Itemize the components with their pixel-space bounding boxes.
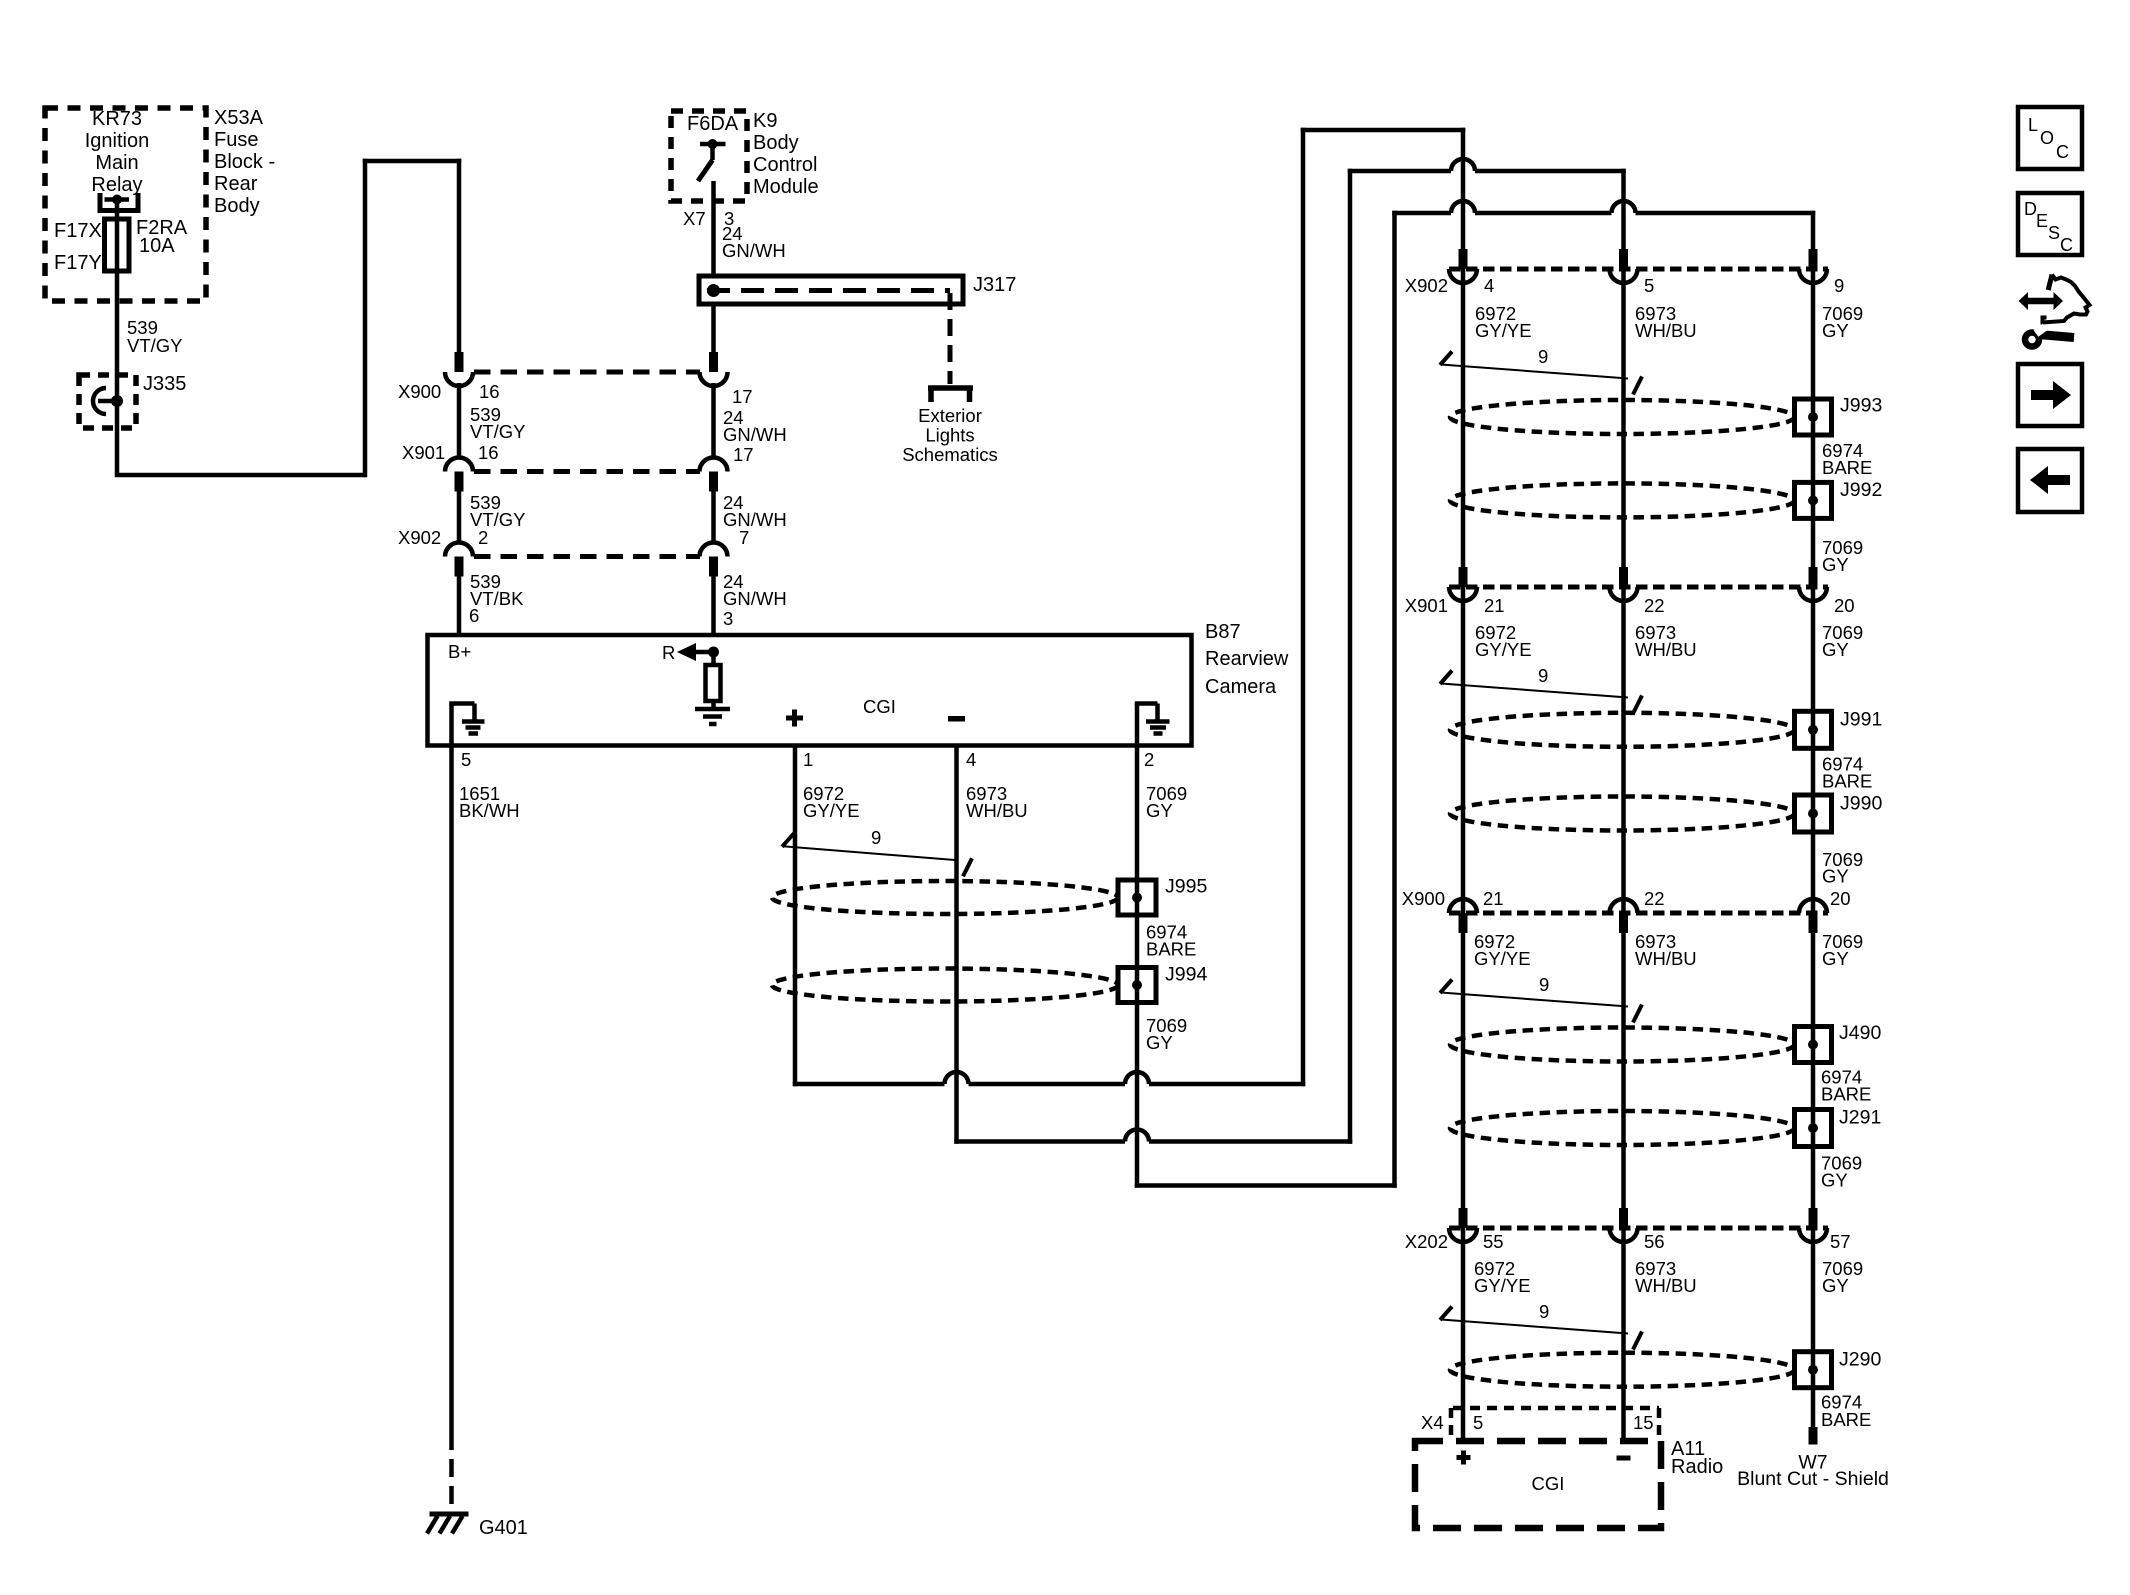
svg-text:GN/WH: GN/WH — [723, 509, 787, 530]
svg-text:GY: GY — [1146, 1032, 1173, 1053]
svg-text:B+: B+ — [448, 641, 471, 662]
svg-text:20: 20 — [1834, 595, 1855, 616]
label pin 2 — [1144, 749, 1154, 770]
label K9 Body Control Module — [753, 110, 819, 198]
label 7069 GY camera — [1146, 783, 1187, 821]
fuse block X53A (dashed box) — [45, 108, 206, 301]
radio A11 dashed box — [1415, 1441, 1661, 1528]
svg-text:9: 9 — [1538, 665, 1548, 686]
wire top horizontal to X900 drop — [363, 159, 462, 164]
svg-text:Camera: Camera — [1205, 676, 1277, 698]
svg-text:GN/WH: GN/WH — [722, 240, 786, 261]
svg-text:Module: Module — [753, 176, 819, 198]
splice J291 — [1795, 1110, 1832, 1147]
svg-text:16: 16 — [479, 381, 500, 402]
splice J335 (dashed box, hook and dot) — [79, 375, 136, 428]
relay KR73 contact — [98, 193, 141, 219]
rearview camera B87 box — [428, 635, 1192, 746]
twisted pair ellipse row3 upper — [1450, 1028, 1795, 1062]
svg-text:Block -: Block - — [214, 151, 275, 173]
connector X202 pin 57 — [1799, 1208, 1827, 1242]
svg-text:L: L — [2028, 115, 2038, 135]
svg-text:16: 16 — [478, 442, 499, 463]
label J291 — [1839, 1107, 1881, 1129]
label X900 and pin 16 — [398, 381, 500, 402]
label pin 5 — [461, 749, 471, 770]
label pin 1 — [803, 749, 813, 770]
label camera pin 3 — [723, 608, 733, 629]
connector X4 dashed outline — [1451, 1408, 1659, 1437]
svg-text:J290: J290 — [1839, 1349, 1881, 1371]
label 539 VT/BK segment 4 — [470, 571, 524, 609]
svg-text:WH/BU: WH/BU — [1635, 1275, 1697, 1296]
svg-text:GY/YE: GY/YE — [1474, 948, 1531, 969]
svg-text:J993: J993 — [1840, 395, 1882, 417]
svg-text:X900: X900 — [1402, 888, 1445, 909]
label B87 Rearview Camera — [1205, 621, 1289, 698]
svg-text:9: 9 — [871, 827, 881, 848]
twisted pair marker 9 row4 — [1440, 1307, 1642, 1350]
wire 6972 GY/YE camera pin 1 — [793, 745, 798, 1086]
label 9 row2 — [1538, 665, 1548, 686]
bus wire 7069 GY shield (bus3) — [1811, 211, 1816, 1428]
svg-text:VT/GY: VT/GY — [127, 335, 183, 356]
svg-text:KR73: KR73 — [92, 108, 142, 130]
svg-text:C: C — [2060, 235, 2073, 255]
wire pin2 feed to bus3 with hops — [1392, 201, 1815, 213]
switch contact inside F6DA — [698, 139, 726, 181]
svg-text:J335: J335 — [143, 373, 186, 395]
label pin 4 — [966, 749, 976, 770]
label camera pin 6 — [469, 605, 479, 626]
labels 6972 GY/YE 6973 WH/BU 7069 GY row2 — [1475, 622, 1863, 660]
connector X202 pin 55 — [1449, 1208, 1477, 1242]
label 6972 GY/YE camera — [803, 783, 860, 821]
resistor inside camera — [706, 652, 721, 707]
connector row X902 dashed line — [1449, 267, 1828, 272]
svg-text:WH/BU: WH/BU — [1635, 948, 1697, 969]
blunt cut shield W7 stub — [1809, 1427, 1818, 1445]
svg-text:J490: J490 — [1839, 1022, 1881, 1044]
label J994 — [1165, 964, 1207, 986]
splice J992 — [1795, 482, 1832, 518]
twisted pair marker 9 row1 — [1440, 352, 1642, 395]
connector X902 pin 9 — [1799, 249, 1827, 283]
svg-text:BK/WH: BK/WH — [459, 800, 520, 821]
label pin 17 — [732, 386, 753, 407]
label F17X — [54, 220, 102, 242]
svg-text:GY: GY — [1822, 639, 1849, 660]
splice J994 — [1118, 968, 1156, 1003]
label 9 row3 — [1539, 974, 1549, 995]
connector row X902 (left) dashed line — [474, 554, 700, 559]
svg-text:GY: GY — [1822, 320, 1849, 341]
svg-text:1: 1 — [803, 749, 813, 770]
label 6974 BARE row2 — [1822, 754, 1872, 792]
svg-text:Control: Control — [753, 154, 817, 176]
connector row X900 (left harness) dashed line — [474, 370, 700, 375]
svg-text:G401: G401 — [479, 1517, 528, 1539]
plus symbol radio — [1457, 1451, 1471, 1465]
label 9 row1 — [1538, 346, 1548, 367]
twisted pair ellipse row1 upper — [1450, 400, 1795, 434]
svg-text:20: 20 — [1830, 888, 1851, 909]
label 6974 BARE row3 — [1821, 1067, 1871, 1105]
svg-text:F17X: F17X — [54, 220, 102, 242]
svg-text:X53A: X53A — [214, 107, 264, 129]
svg-text:F17Y: F17Y — [54, 252, 102, 274]
label F17Y — [54, 252, 102, 274]
label F6DA — [687, 113, 739, 135]
svg-text:X202: X202 — [1405, 1231, 1448, 1252]
wire pin1 feed to bus1 — [1301, 128, 1466, 133]
twisted pair ellipse camera upper — [772, 881, 1118, 914]
label B+ — [448, 641, 471, 662]
svg-text:10A: 10A — [139, 235, 175, 257]
label 6974 BARE camera — [1146, 922, 1196, 960]
label J993 — [1840, 395, 1882, 417]
svg-text:BARE: BARE — [1821, 1084, 1871, 1105]
svg-text:Exterior: Exterior — [918, 405, 982, 426]
label 1651 BK/WH — [459, 783, 520, 821]
connector X901 pin 21 — [1449, 567, 1477, 601]
label KR73 Ignition Main Relay — [85, 108, 150, 196]
wire 539 VT/GY fuse to J335 to corner — [115, 271, 120, 475]
splice pack J317 (box with dashed bus) — [699, 276, 963, 304]
label J335 — [143, 373, 186, 395]
label 24 GN/WH segment 4 — [723, 571, 787, 609]
label 6974 BARE row4 — [1821, 1392, 1871, 1431]
label 9 twist camera — [871, 827, 881, 848]
label X901 and pin 16 — [402, 442, 499, 463]
svg-text:2: 2 — [1144, 749, 1154, 770]
icon back arrow box — [2018, 449, 2082, 512]
svg-text:9: 9 — [1539, 974, 1549, 995]
wire pin1 riser — [1301, 128, 1306, 1087]
dashed branch from J317 to exterior lights — [948, 293, 953, 384]
label J290 — [1839, 1349, 1881, 1371]
twisted pair marker 9 (camera) — [782, 833, 972, 876]
svg-text:CGI: CGI — [863, 696, 896, 717]
svg-text:GY/YE: GY/YE — [1474, 1275, 1531, 1296]
svg-text:Relay: Relay — [91, 174, 142, 196]
splice J290 — [1795, 1352, 1832, 1388]
splice J990 — [1795, 795, 1832, 832]
svg-text:5: 5 — [1644, 275, 1654, 296]
svg-text:WH/BU: WH/BU — [1635, 320, 1697, 341]
label J490 — [1839, 1022, 1881, 1044]
label F2RA 10A — [136, 217, 188, 257]
labels 6972 GY/YE 6973 WH/BU 7069 GY row1 — [1475, 303, 1863, 341]
label X900 and pins 21 22 20 — [1402, 888, 1851, 909]
svg-text:J992: J992 — [1840, 479, 1882, 501]
svg-text:Body: Body — [214, 195, 260, 217]
svg-text:Lights: Lights — [925, 425, 974, 446]
label 7069 GY below J994 — [1146, 1015, 1187, 1053]
bus wire 6973 WH/BU (bus2) — [1621, 169, 1626, 1442]
svg-text:4: 4 — [1484, 275, 1494, 296]
svg-text:Rear: Rear — [214, 173, 258, 195]
svg-text:GY/YE: GY/YE — [1475, 320, 1532, 341]
label J995 — [1165, 876, 1207, 898]
label X202 and pins 55 56 57 — [1405, 1231, 1851, 1252]
connector X902 pin 5 — [1610, 249, 1638, 283]
svg-text:GN/WH: GN/WH — [723, 588, 787, 609]
wire 1651 BK/WH to G401 — [449, 745, 454, 1513]
svg-text:WH/BU: WH/BU — [1635, 639, 1697, 660]
label 24 GN/WH segment 2 — [723, 407, 787, 445]
label Exterior Lights Schematics — [902, 405, 998, 465]
label X53A Fuse Block - Rear Body — [214, 107, 275, 217]
svg-text:Schematics: Schematics — [902, 444, 998, 465]
svg-text:22: 22 — [1644, 888, 1665, 909]
svg-text:J991: J991 — [1840, 708, 1882, 730]
svg-text:21: 21 — [1483, 888, 1504, 909]
wire riser up to top corner — [363, 159, 368, 478]
label 6973 WH/BU camera — [966, 783, 1028, 821]
svg-text:9: 9 — [1539, 1301, 1549, 1322]
connector X900 pin 20 — [1799, 899, 1827, 933]
wire pin1 horizontal run with hops — [793, 1072, 1306, 1084]
svg-text:X902: X902 — [398, 527, 441, 548]
wire pin4 feed to bus2 with hop — [1348, 159, 1626, 171]
label W7 Blunt Cut - Shield — [1737, 1452, 1889, 1491]
label X902 and pin 2 — [398, 527, 488, 548]
label R with reverse-input arrow — [662, 642, 675, 663]
svg-text:F6DA: F6DA — [687, 113, 739, 135]
svg-text:BARE: BARE — [1822, 457, 1872, 478]
wire 6973 WH/BU camera pin 4 — [954, 745, 959, 1144]
label X901 and pins 21 22 20 — [1405, 595, 1855, 616]
body control module output F6DA (dashed box) — [671, 111, 747, 201]
svg-text:56: 56 — [1644, 1231, 1665, 1252]
connector X902 pin 7 socket and stub — [700, 543, 728, 637]
svg-text:15: 15 — [1633, 1412, 1654, 1433]
label J992 — [1840, 479, 1882, 501]
internal ground right (pin 2) — [1135, 704, 1170, 746]
wire segment J335 down and right to riser — [115, 473, 365, 478]
label J317 — [973, 274, 1016, 296]
svg-text:5: 5 — [461, 749, 471, 770]
svg-text:55: 55 — [1483, 1231, 1504, 1252]
svg-text:GY: GY — [1822, 1275, 1849, 1296]
connector X901 pin 22 — [1610, 567, 1638, 601]
svg-text:4: 4 — [966, 749, 976, 770]
connector X902 pin 4 — [1449, 249, 1477, 283]
splice J991 — [1795, 711, 1832, 748]
svg-text:CGI: CGI — [1532, 1473, 1565, 1494]
svg-text:VT/GY: VT/GY — [470, 421, 526, 442]
svg-text:BARE: BARE — [1822, 770, 1872, 791]
harness continuation symbol (exterior lights) — [928, 388, 973, 402]
svg-text:B87: B87 — [1205, 621, 1241, 643]
wire pin4 riser — [1348, 169, 1353, 1144]
wire X7-3 24 GN/WH from F6DA — [711, 181, 716, 276]
icon harness routing (arrow, outline, wrench) — [2019, 275, 2090, 347]
svg-text:X901: X901 — [402, 442, 445, 463]
arrow R input — [677, 643, 719, 661]
svg-text:S: S — [2048, 223, 2060, 243]
svg-text:GY: GY — [1146, 800, 1173, 821]
twisted pair ellipse camera lower — [772, 969, 1118, 1002]
svg-text:BARE: BARE — [1821, 1409, 1871, 1430]
bus wire 6972 GY/YE (bus1) — [1461, 128, 1466, 1442]
svg-text:21: 21 — [1484, 595, 1505, 616]
connector X900 pin 22 — [1610, 899, 1638, 933]
connector X900 pin 21 — [1449, 899, 1477, 933]
connector X901 pin 20 — [1799, 567, 1827, 601]
svg-text:Main: Main — [95, 152, 138, 174]
connector X900 pin 17 (24 wire) stub and socket — [700, 352, 728, 458]
twisted pair ellipse row2 lower — [1450, 797, 1795, 831]
label pin 7 upper — [739, 527, 749, 548]
wire pin2 riser — [1392, 211, 1397, 1188]
label 6974 BARE row1 — [1822, 440, 1872, 478]
svg-text:Rearview: Rearview — [1205, 648, 1289, 670]
internal ground left (pin 5) — [449, 704, 484, 746]
svg-text:GN/WH: GN/WH — [723, 424, 787, 445]
connector row X901 (left) dashed line — [474, 469, 700, 474]
svg-text:Blunt Cut - Shield: Blunt Cut - Shield — [1737, 1468, 1889, 1490]
label pin 17 upper — [733, 444, 754, 465]
connector row X900 dashed line — [1449, 911, 1828, 916]
svg-text:GY: GY — [1821, 1170, 1848, 1191]
label 7069 GY row3 — [1821, 1153, 1862, 1191]
label X902 and pins 4 5 9 — [1405, 275, 1845, 296]
splice J490 — [1795, 1027, 1832, 1063]
svg-text:17: 17 — [732, 386, 753, 407]
svg-text:17: 17 — [733, 444, 754, 465]
connector X901 pin 17 socket and stub — [700, 458, 728, 544]
icon LOC box — [2018, 107, 2082, 169]
label J991 — [1840, 708, 1882, 730]
twisted pair ellipse row1 lower — [1450, 483, 1795, 517]
label 7069 GY row1 — [1822, 537, 1863, 575]
svg-text:J317: J317 — [973, 274, 1016, 296]
label A11 Radio — [1671, 1438, 1723, 1478]
connector row X202 dashed line — [1449, 1226, 1828, 1231]
svg-text:22: 22 — [1644, 595, 1665, 616]
label 9 row4 — [1539, 1301, 1549, 1322]
svg-text:GY: GY — [1822, 866, 1849, 887]
svg-text:Ignition: Ignition — [85, 130, 150, 152]
label 24 GN/WH segment 3 — [723, 492, 787, 530]
svg-text:X902: X902 — [1405, 275, 1448, 296]
svg-text:C: C — [2056, 142, 2069, 162]
svg-text:GY/YE: GY/YE — [803, 800, 860, 821]
labels 6972 GY/YE 6973 WH/BU 7069 GY row4 — [1474, 1258, 1863, 1296]
wire pin4 horizontal run with hop — [954, 1130, 1352, 1142]
twisted pair marker 9 row2 — [1440, 671, 1642, 714]
splice J995 — [1118, 880, 1156, 915]
ground G401 — [427, 1514, 469, 1534]
label 539 VT/GY segment 2 — [470, 404, 526, 442]
svg-text:9: 9 — [1834, 275, 1844, 296]
svg-text:X7: X7 — [683, 208, 706, 229]
icon forward arrow box — [2018, 364, 2082, 426]
splice J993 — [1795, 399, 1832, 435]
label 539 VT/GY segment 3 — [470, 492, 526, 530]
label J990 — [1840, 792, 1882, 814]
fuse F2RA 10A — [105, 219, 130, 271]
svg-text:J994: J994 — [1165, 964, 1207, 986]
twisted pair ellipse row3 lower — [1450, 1111, 1795, 1145]
twisted pair ellipse row2 upper — [1450, 713, 1795, 747]
svg-text:2: 2 — [478, 527, 488, 548]
svg-text:J990: J990 — [1840, 792, 1882, 814]
label 7069 GY row2 — [1822, 849, 1863, 887]
minus symbol radio — [1617, 1456, 1631, 1461]
svg-text:GY: GY — [1822, 948, 1849, 969]
label X7 pin 3 — [683, 208, 734, 229]
svg-text:WH/BU: WH/BU — [966, 800, 1028, 821]
svg-text:5: 5 — [1473, 1412, 1483, 1433]
svg-text:J995: J995 — [1165, 876, 1207, 898]
wire drop to connector X900 — [457, 159, 462, 352]
label CGI — [863, 696, 896, 717]
svg-text:X901: X901 — [1405, 595, 1448, 616]
svg-text:X4: X4 — [1421, 1412, 1444, 1433]
icon DESC box — [2018, 193, 2082, 255]
svg-text:E: E — [2036, 211, 2048, 231]
svg-text:57: 57 — [1830, 1231, 1851, 1252]
connector X202 pin 56 — [1610, 1208, 1638, 1242]
label CGI radio — [1532, 1473, 1565, 1494]
connector row X901 dashed line — [1449, 585, 1828, 590]
svg-text:O: O — [2040, 128, 2054, 148]
svg-text:K9: K9 — [753, 110, 777, 132]
labels 6972 GY/YE 6973 WH/BU 7069 GY row3 — [1474, 931, 1863, 969]
wire GN/WH J317 to camera (through connectors) — [711, 304, 716, 352]
svg-text:9: 9 — [1538, 346, 1548, 367]
svg-text:J291: J291 — [1839, 1107, 1881, 1129]
svg-text:Radio: Radio — [1671, 1456, 1723, 1478]
connector X900 pin 16 (539 wire) stub and socket — [445, 352, 473, 458]
label G401 — [479, 1517, 528, 1539]
svg-text:Body: Body — [753, 132, 799, 154]
label 24 GN/WH segment 1 — [722, 223, 786, 261]
svg-text:GY: GY — [1822, 554, 1849, 575]
minus symbol camera — [948, 716, 965, 722]
svg-text:6: 6 — [469, 605, 479, 626]
ground symbol under resistor — [695, 709, 730, 724]
wire 7069 GY camera pin 2 — [1135, 745, 1140, 1188]
wire pin2 horizontal run — [1135, 1183, 1397, 1188]
svg-text:R: R — [662, 642, 675, 663]
svg-text:X900: X900 — [398, 381, 441, 402]
svg-text:BARE: BARE — [1146, 939, 1196, 960]
twisted pair ellipse row4 — [1450, 1353, 1795, 1387]
svg-text:7: 7 — [739, 527, 749, 548]
svg-text:3: 3 — [723, 608, 733, 629]
svg-text:Fuse: Fuse — [214, 129, 258, 151]
plus symbol camera — [786, 710, 803, 727]
connector X901 pin 16 socket and stub — [445, 458, 473, 544]
label 539 VT/GY — [127, 317, 183, 356]
connector X902 pin 2 socket and stub — [445, 543, 473, 637]
svg-text:GY/YE: GY/YE — [1475, 639, 1532, 660]
twisted pair marker 9 row3 — [1440, 980, 1642, 1023]
label X4 and pins 5 15 — [1421, 1412, 1654, 1433]
